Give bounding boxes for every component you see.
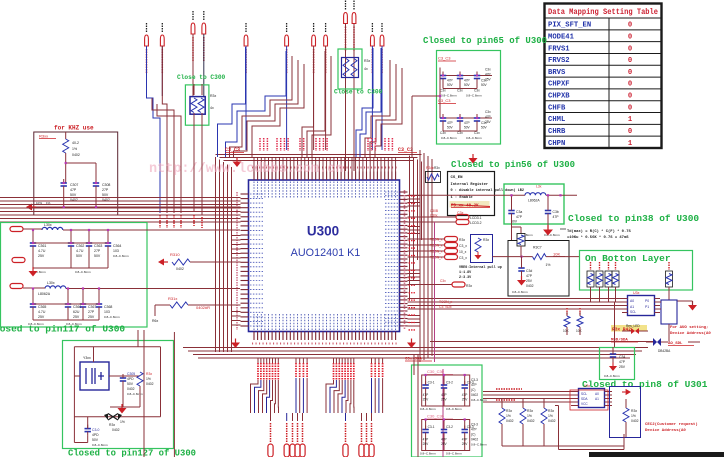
net label MSD/SDA: [611, 338, 638, 343]
wire from power flag P308: [345, 24, 347, 151]
capacitor C361: [30, 239, 47, 268]
svg-text:U3x: U3x: [633, 291, 640, 295]
svg-text:CEC2(Customer request): CEC2(Customer request): [645, 422, 698, 427]
svg-text:47P: 47P: [70, 188, 77, 192]
dense vertical wires above U300 top pins: [254, 157, 396, 172]
svg-text:1%: 1%: [546, 263, 551, 267]
svg-text:C3x: C3x: [457, 131, 463, 135]
svg-text:nttp://www.lcdbbs.com.cn: nttp://www.lcdbbs.com.cn: [149, 162, 343, 177]
svg-text:0402: 0402: [631, 419, 639, 423]
svg-text:Res_LED: Res_LED: [626, 324, 640, 328]
wire staircase bundle top-right: [356, 48, 402, 157]
svg-text:CHPN: CHPN: [548, 140, 565, 148]
svg-text:C305: C305: [127, 372, 135, 376]
svg-text:Device Address(A0: Device Address(A0: [645, 428, 686, 433]
wire staircase bundle top-mid: [218, 47, 305, 157]
svg-text:C3x: C3x: [485, 110, 491, 114]
capacitor C363: [86, 239, 103, 268]
svg-text:VCC: VCC: [581, 402, 588, 406]
svg-text:50V: 50V: [92, 438, 99, 442]
pull-up resistor pack 4: [612, 262, 619, 287]
svg-text:C3x: C3x: [457, 89, 463, 93]
connector J3B: [12, 258, 25, 263]
wire bus U300 to I2C: [408, 299, 628, 310]
svg-text:C368: C368: [104, 305, 112, 309]
svg-text:10K: 10K: [553, 252, 560, 257]
svg-text:47P: 47P: [423, 393, 429, 397]
svg-text:0.8~C.8mm: 0.8~C.8mm: [471, 443, 487, 447]
IC U300 AUO12401 K1 body: [249, 180, 400, 332]
capacitor C3b pin38: [544, 194, 560, 237]
wire bus ring bottom of U300: [183, 348, 648, 359]
wire bus ring right of U300: [410, 156, 422, 301]
svg-text:4.7U: 4.7U: [76, 249, 84, 253]
LC filter group green box left: [1, 223, 148, 328]
svg-text:50V: 50V: [464, 126, 471, 130]
bottom connectors: [343, 413, 374, 457]
connector stack right of U300: [408, 237, 468, 261]
wire LC group2 rails: [28, 304, 99, 326]
svg-text:VREG:Internal pull up: VREG:Internal pull up: [459, 265, 502, 270]
IC U302 I2C level shifter: [622, 291, 660, 316]
svg-text:C3_C3: C3_C3: [225, 147, 240, 153]
straight drop columns: [372, 358, 383, 413]
wire from power flag P303: [203, 34, 205, 96]
svg-text:C3x: C3x: [440, 131, 446, 135]
svg-text:4PD: 4PD: [92, 433, 99, 437]
svg-text:A0: A0: [630, 299, 634, 303]
wire U301 bottom loop: [555, 406, 624, 450]
svg-text:0.8~C.8mm: 0.8~C.8mm: [466, 136, 482, 140]
power flag P310: [371, 23, 375, 74]
svg-text:C3-2: C3-2: [446, 381, 453, 385]
wire crystal top rail: [74, 330, 160, 443]
transistor box right of U302: [655, 300, 678, 328]
svg-text:50V: 50V: [94, 254, 101, 258]
svg-text:C365: C365: [38, 305, 46, 309]
svg-text:10K: 10K: [576, 329, 583, 333]
net label C3_C3 right: [398, 147, 417, 153]
svg-text:47P: 47P: [447, 79, 453, 83]
svg-text:C361: C361: [38, 244, 46, 248]
svg-text:Data Mapping Setting Table: Data Mapping Setting Table: [548, 9, 658, 17]
connector pair LCD: [408, 209, 482, 225]
svg-text:CS_EN: CS_EN: [451, 176, 464, 180]
svg-text:47P: 47P: [485, 73, 491, 77]
svg-text:C3_x: C3_x: [459, 244, 467, 248]
svg-text:For AUO setting;: For AUO setting;: [670, 325, 708, 330]
svg-text:DB42BA: DB42BA: [658, 349, 671, 353]
svg-text:R3x: R3x: [631, 409, 637, 413]
wire staircase bundle top-mid2: [302, 51, 331, 157]
svg-text:0: 0: [628, 22, 632, 30]
wire from power flag P301: [161, 46, 163, 96]
bottom capacitor bank row 1: [420, 369, 487, 411]
wire KHZ box output: [30, 201, 241, 207]
svg-text:R3x: R3x: [459, 238, 465, 242]
svg-text:0: 0: [628, 93, 632, 101]
wire from power flag P309: [353, 24, 355, 151]
svg-text:25V: 25V: [38, 254, 45, 258]
formula note: [560, 229, 632, 240]
resistor pair left of diode: [563, 308, 583, 335]
svg-text:Close to C300: Close to C300: [177, 74, 226, 81]
svg-text:50V: 50V: [76, 254, 83, 258]
IC U300 right pin column: [385, 190, 408, 330]
svg-text:2:3.3V: 2:3.3V: [459, 276, 472, 280]
svg-text:50V: 50V: [447, 83, 454, 87]
svg-text:Closed to pin65 of U300: Closed to pin65 of U300: [423, 35, 547, 46]
IC U300 bottom pin row: [252, 314, 398, 344]
capacitor C365: [30, 300, 47, 320]
svg-text:0: 0: [628, 45, 632, 53]
svg-text:10K: 10K: [563, 329, 570, 333]
LC green box pin38: [504, 184, 564, 224]
svg-text:C3-0: C3-0: [92, 428, 99, 432]
ground arrow near pin65 bank: [469, 158, 478, 164]
svg-text:C3-3: C3-3: [471, 423, 478, 427]
svg-text:25V: 25V: [485, 120, 492, 124]
svg-text:U300: U300: [307, 224, 339, 239]
svg-text:R3xx: R3xx: [39, 134, 48, 139]
svg-text:103: 103: [113, 249, 119, 253]
resistor row R34x: [499, 399, 624, 446]
svg-text:47P: 47P: [471, 428, 477, 432]
svg-text:1%: 1%: [120, 420, 125, 424]
svg-text:50V: 50V: [481, 126, 488, 130]
svg-text:25V: 25V: [485, 78, 492, 82]
capacitor C368: [96, 300, 120, 320]
svg-text:R3x: R3x: [506, 409, 512, 413]
diode D302 bowtie: [646, 338, 668, 346]
svg-text:0.8~C.8mm: 0.8~C.8mm: [127, 392, 143, 396]
svg-text:47P: 47P: [441, 438, 447, 442]
svg-text:C3x: C3x: [474, 131, 480, 135]
power flag P307: [324, 23, 328, 74]
svg-text:C3_x: C3_x: [459, 256, 467, 260]
resistor block R340: [426, 166, 441, 183]
wire bus lower right: [483, 389, 571, 402]
capacitor C307: [61, 179, 79, 207]
svg-text:0.8~C.8mm: 0.8~C.8mm: [466, 94, 482, 98]
net labels above U300 top pins: [260, 138, 392, 151]
svg-text:0: 0: [628, 33, 632, 41]
svg-text:C30_C30: C30_C30: [427, 414, 445, 419]
svg-text:C3a: C3a: [516, 210, 522, 214]
vertical wires into U300 top pins: [346, 24, 355, 172]
svg-text:0.8~C.8mm: 0.8~C.8mm: [113, 254, 129, 258]
note VREG text: [459, 265, 502, 280]
resistor pair box C300 right: [338, 49, 370, 89]
svg-text:for KHZ use: for KHZ use: [54, 125, 94, 132]
wire from power flag P304: [245, 46, 247, 150]
svg-text:50V: 50V: [511, 220, 518, 224]
svg-text:P0: P0: [645, 299, 649, 303]
svg-text:R3x: R3x: [364, 59, 370, 63]
wires pull-up packs: [591, 287, 670, 302]
svg-text:A1: A1: [630, 305, 634, 309]
net label near bank top: [405, 357, 432, 362]
svg-text:C3x: C3x: [440, 89, 446, 93]
svg-text:C364: C364: [113, 244, 121, 248]
resistor R350: [623, 399, 639, 437]
svg-text:47P: 47P: [462, 438, 468, 442]
power flag P300: [145, 23, 149, 74]
svg-text:FRVS1: FRVS1: [548, 45, 570, 53]
svg-text:0.8~C.8mm: 0.8~C.8mm: [446, 452, 462, 456]
svg-text:Device Address(A0: Device Address(A0: [670, 331, 711, 336]
net label AO_SDL: [658, 342, 694, 353]
ground arrow LC group1: [29, 271, 38, 277]
svg-text:R3x: R3x: [466, 284, 472, 288]
svg-text:62U: 62U: [73, 310, 80, 314]
svg-text:C3x: C3x: [485, 68, 491, 72]
svg-text:25V: 25V: [619, 365, 626, 369]
svg-text:0402: 0402: [471, 438, 478, 442]
resistor R306 in KHZ box: [63, 132, 80, 183]
svg-text:47P: 47P: [464, 121, 470, 125]
wire bus ring top of U300: [216, 155, 422, 161]
svg-text:47P: 47P: [485, 115, 491, 119]
resistor R310: [158, 252, 241, 271]
svg-text:R3x: R3x: [483, 238, 489, 242]
svg-text:(C): (C): [471, 433, 475, 437]
svg-text:SCL: SCL: [630, 310, 636, 314]
svg-text:0402: 0402: [127, 387, 135, 391]
svg-text:A0: A0: [595, 392, 599, 396]
pull-up resistor pack 5: [666, 262, 673, 287]
resistor network box "for KHZ use": [34, 125, 118, 216]
inductor L302: [23, 281, 240, 296]
power flag P308: [344, 1, 348, 52]
svg-text:U3x: U3x: [584, 384, 590, 388]
U301 right box: [610, 387, 641, 438]
svg-text:R34x: R34x: [426, 166, 434, 170]
svg-text:Internal Register: Internal Register: [451, 182, 489, 187]
wire from power flag P306: [313, 46, 315, 150]
capacitor C3-0 crystal bottom: [74, 417, 108, 447]
svg-text:0.8~C.8mm: 0.8~C.8mm: [446, 407, 462, 411]
svg-text:0.8~C.8mm: 0.8~C.8mm: [512, 290, 528, 294]
highlighted net label R3x: [611, 325, 647, 333]
svg-text:0: 0: [628, 69, 632, 77]
power flag P309: [352, 1, 356, 52]
svg-text:C3_C3: C3_C3: [438, 56, 451, 61]
ground arrow right of U300 bottom: [407, 343, 416, 349]
pull-up resistor pack 2: [596, 262, 603, 287]
svg-text:(C): (C): [471, 388, 475, 392]
svg-text:50V: 50V: [447, 126, 454, 130]
svg-text:PIX_SFT_EN: PIX_SFT_EN: [548, 22, 591, 30]
bottom capacitor bank row 2: [420, 414, 487, 456]
svg-text:R3x: R3x: [109, 423, 115, 427]
svg-text:Closed to pin127 of U300: Closed to pin127 of U300: [68, 448, 196, 457]
svg-text:4PD: 4PD: [127, 377, 134, 381]
svg-text:L30x: L30x: [47, 281, 55, 285]
svg-text:10_x: 10_x: [459, 250, 467, 254]
power flag P303: [202, 11, 206, 62]
wire pin65 bank to bus: [412, 76, 441, 158]
svg-text:C362: C362: [76, 244, 84, 248]
svg-text:0: 0: [628, 81, 632, 89]
svg-text:C3-1: C3-1: [428, 381, 435, 385]
wire from power flag P300: [146, 46, 148, 96]
svg-text:0402: 0402: [176, 267, 184, 271]
svg-text:4.7U: 4.7U: [38, 249, 46, 253]
wire from power flag P305: [286, 46, 288, 150]
power flag P302: [191, 11, 195, 62]
svg-text:0402: 0402: [548, 419, 556, 423]
capacitor bank row 1: [438, 56, 492, 98]
svg-text:R3x: R3x: [146, 372, 152, 376]
svg-text:C3-1: C3-1: [428, 425, 435, 429]
capacitor C305 crystal: [120, 372, 143, 407]
svg-text:4.7U: 4.7U: [38, 310, 46, 314]
svg-text:47P: 47P: [462, 393, 468, 397]
svg-text:1:1.8V: 1:1.8V: [459, 271, 472, 275]
svg-text:4x: 4x: [364, 67, 368, 71]
Data Mapping Setting Table: [545, 4, 662, 149]
svg-text:1%: 1%: [548, 414, 553, 418]
wire LC group1 gnd rail: [30, 243, 108, 274]
wire bus ring left of U300: [216, 157, 232, 352]
svg-text:0.8~C.8mm: 0.8~C.8mm: [604, 374, 620, 378]
svg-text:0.8~C.8mm: 0.8~C.8mm: [471, 398, 487, 402]
capacitor bank green box pin65: [437, 51, 501, 145]
svg-text:L3x: L3x: [536, 185, 542, 189]
connector J3A: [10, 227, 23, 232]
net label C3_C3 left: [225, 147, 244, 153]
inductor L307: [408, 185, 578, 203]
svg-text:C3b: C3b: [553, 210, 559, 214]
crystal circuit green box: [63, 341, 174, 449]
svg-text:On Botton Layer: On Botton Layer: [585, 253, 671, 264]
power flag P305: [285, 23, 289, 74]
IC U301: [570, 384, 612, 410]
wire from power flag P311: [381, 46, 383, 150]
power flag P304: [244, 23, 248, 74]
capacitor C362: [68, 239, 85, 268]
net labels at left staircase ends: [160, 215, 181, 228]
svg-text:L8062A: L8062A: [38, 292, 51, 296]
svg-text:25V: 25V: [423, 442, 430, 446]
wire SDA horizontal: [430, 341, 653, 343]
svg-text:Td(max) = R(C) * C(F) * 0.7S: Td(max) = R(C) * C(F) * 0.7S: [567, 229, 632, 234]
wire from power flag P307: [325, 46, 327, 150]
svg-text:25V: 25V: [38, 315, 45, 319]
svg-text:0402: 0402: [527, 419, 535, 423]
svg-text:0 : disable internal pull down: 0 : disable internal pull down) LB2: [451, 188, 525, 193]
svg-text:25V: 25V: [462, 398, 469, 402]
svg-text:R3C7: R3C7: [533, 246, 542, 250]
note For AUO setting: [670, 325, 711, 336]
wire right vertical to diode: [615, 302, 701, 347]
svg-text:50V: 50V: [464, 83, 471, 87]
svg-text:47P: 47P: [447, 121, 453, 125]
RC delay box pin38: [493, 241, 581, 297]
svg-text:C367: C367: [88, 305, 96, 309]
wire KHZ branch: [65, 162, 96, 183]
svg-text:CHML: CHML: [548, 116, 565, 124]
svg-text:C363: C363: [94, 244, 102, 248]
svg-text:FRVS2: FRVS2: [548, 57, 570, 65]
svg-text:1: 1: [628, 116, 633, 124]
wires ring to U300 left pins: [232, 236, 241, 326]
svg-text:25V: 25V: [73, 315, 80, 319]
svg-text:C30B: C30B: [430, 209, 438, 213]
svg-text:0.8~C.8mm: 0.8~C.8mm: [441, 136, 457, 140]
svg-text:C30x: C30x: [430, 214, 438, 218]
svg-text:0.8~C.8mm: 0.8~C.8mm: [75, 270, 91, 274]
ground arrow KHZ box: [26, 204, 32, 211]
svg-text:0402: 0402: [112, 428, 120, 432]
svg-text:50V: 50V: [127, 382, 134, 386]
svg-text:0.8~C.8mm: 0.8~C.8mm: [420, 452, 436, 456]
inductor L301: [23, 223, 240, 230]
svg-text:C30_C30: C30_C30: [427, 369, 445, 374]
svg-text:47P: 47P: [619, 360, 626, 364]
svg-text:SCL: SCL: [581, 392, 587, 396]
junction dots left LC rows: [32, 182, 109, 305]
left input bundle to U300: [0, 198, 241, 223]
power flag P311: [380, 23, 384, 74]
svg-text:P1: P1: [645, 305, 649, 309]
svg-text:25V: 25V: [526, 279, 533, 283]
svg-text:0.8~C.8mm: 0.8~C.8mm: [104, 315, 120, 319]
svg-text:C3x: C3x: [474, 89, 480, 93]
IC U300 left pin column: [237, 192, 263, 330]
net labels right column: [439, 300, 452, 309]
note box CS_EN: [448, 172, 525, 216]
svg-text:0402#R: 0402#R: [196, 305, 210, 310]
svg-text:1: 1: [628, 140, 633, 148]
svg-text:47P: 47P: [471, 383, 477, 387]
svg-text:47P: 47P: [553, 215, 560, 219]
pull-up resistor pack 3: [605, 262, 612, 287]
svg-text:0: 0: [628, 128, 632, 136]
black bar bottom right: [589, 452, 724, 457]
power flag P306: [312, 23, 316, 74]
svg-text:R310: R310: [170, 252, 180, 257]
capacitor lead wires LC rows: [33, 230, 108, 300]
svg-text:CHPXB: CHPXB: [548, 93, 570, 101]
svg-text:losed to pin117 of U300: losed to pin117 of U300: [0, 324, 125, 335]
svg-text:25V: 25V: [462, 442, 469, 446]
svg-text:27P: 27P: [88, 310, 95, 314]
capacitor C367: [80, 300, 97, 320]
svg-text:C3-2: C3-2: [446, 425, 453, 429]
svg-text:0402: 0402: [526, 284, 534, 288]
wire from power flag P302: [192, 34, 194, 96]
svg-text:47P: 47P: [423, 438, 429, 442]
svg-text:BRVS: BRVS: [548, 69, 566, 77]
svg-text:0: 0: [628, 57, 632, 65]
capacitor C34: [604, 347, 626, 378]
svg-text:L8062A: L8062A: [528, 199, 540, 203]
ferrite bead above RC box: [512, 227, 526, 257]
svg-text:R6x: R6x: [152, 319, 158, 323]
svg-text:L30x: L30x: [44, 223, 52, 227]
power flag P301: [160, 23, 164, 74]
wire long vertical x144: [143, 330, 145, 457]
capacitor C366: [65, 300, 82, 320]
wires U300 right pins to risers: [408, 196, 421, 327]
svg-text:R3x: R3x: [527, 409, 533, 413]
svg-text:SDA: SDA: [581, 397, 588, 401]
resistor pair box C300 left: [185, 84, 216, 228]
green box cap C34: [600, 348, 635, 380]
svg-text:50V: 50V: [481, 83, 488, 87]
